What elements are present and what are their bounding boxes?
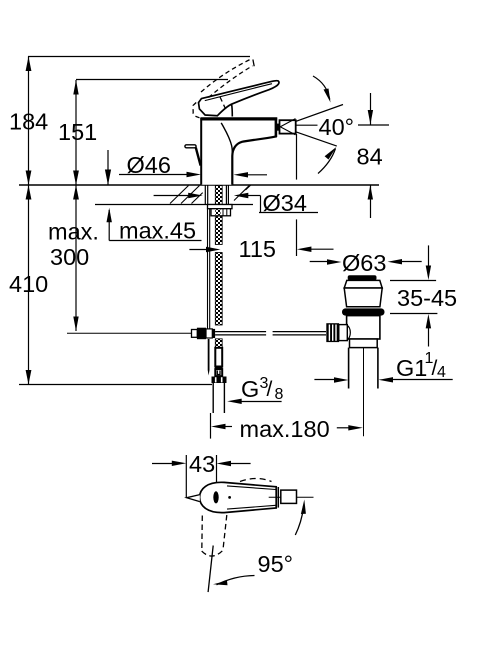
dashed raised handle nose xyxy=(193,103,200,118)
horizontal rod to drain segment 1 xyxy=(215,332,326,335)
arrow max300 bottom xyxy=(73,317,78,332)
arrow Ø34 left xyxy=(188,193,203,198)
svg-text:35-45: 35-45 xyxy=(397,285,457,311)
arrow max45 (up) xyxy=(107,208,112,223)
DIMENSION LINES xyxy=(19,57,453,593)
arrow Ø46 left (right-pointing) xyxy=(187,172,202,177)
left port curve xyxy=(347,325,351,340)
arrow G1 1/4 leader (left-pointing) xyxy=(379,377,394,382)
svg-text:95°: 95° xyxy=(258,551,294,577)
arrow 43 right (left-pointing) xyxy=(217,461,232,466)
DRAIN (pop-up waste assembly) xyxy=(326,275,384,388)
svg-text:/: / xyxy=(267,378,273,401)
pop-up knob rod xyxy=(196,148,201,166)
40 deg bisector xyxy=(296,124,318,126)
arrow 410 bottom xyxy=(26,370,32,385)
flange body xyxy=(344,288,382,307)
svg-text:300: 300 xyxy=(50,244,89,270)
dim 84 upper ref xyxy=(358,124,389,126)
dim 115 left shaft xyxy=(189,249,206,251)
arrow 95deg arc top end xyxy=(301,500,306,515)
svg-text:Ø34: Ø34 xyxy=(263,190,307,216)
body crease xyxy=(221,123,232,153)
arrow 35-45 lower (up) xyxy=(426,314,431,329)
drain center ext line xyxy=(363,339,365,436)
dim 410 vertical xyxy=(28,185,30,385)
flex hose braid lower xyxy=(215,339,222,348)
svg-text:max.: max. xyxy=(48,219,99,245)
arrow 95deg arc bottom end xyxy=(213,581,228,586)
svg-text:410: 410 xyxy=(9,271,48,297)
top view body outline xyxy=(200,482,277,512)
dim Ø34 arrows shafts xyxy=(154,195,189,197)
svg-text:max.45: max.45 xyxy=(119,218,196,244)
svg-text:8: 8 xyxy=(275,386,284,403)
40 deg arc upper xyxy=(313,76,330,100)
dim max180 right shaft xyxy=(337,427,349,429)
dim 35-45 vertical lower xyxy=(428,328,430,347)
arrow 84 bottom (up) xyxy=(368,185,373,200)
aerator collar nub xyxy=(277,124,280,131)
arrow Ø63 left (right-pointing) xyxy=(327,259,342,264)
dim 184 vertical xyxy=(28,57,30,186)
arrow 40deg arc lower end xyxy=(325,147,337,160)
arrow 184 top xyxy=(26,57,32,72)
top view dashed handle arc xyxy=(240,479,272,482)
top view small dot xyxy=(228,496,231,499)
arrow 40deg arc upper end xyxy=(324,89,331,103)
stopper cap xyxy=(348,275,377,280)
deck pointer line at x108 xyxy=(107,150,109,185)
arrow G1 1/4 pipe left (right-pointing) xyxy=(334,377,349,382)
flex hose braid middle xyxy=(215,253,222,326)
mounting nut xyxy=(211,209,231,216)
dim Ø63 right shaft xyxy=(402,261,422,263)
knurled nut xyxy=(326,323,339,342)
arrow 151 bottom xyxy=(73,171,79,186)
arrow max300 top xyxy=(73,185,79,200)
dim max45 arrow shaft xyxy=(108,210,110,241)
seal ring xyxy=(342,308,385,315)
95 deg arc upper xyxy=(295,505,303,535)
arrow 115 left (right-pointing) xyxy=(206,247,221,252)
G3/8 nut xyxy=(212,377,227,384)
spout end face xyxy=(275,118,278,138)
body fill xyxy=(201,119,277,185)
dim G3/8 underline xyxy=(240,401,282,403)
dashed cone bottom ellipse xyxy=(202,550,224,556)
dashed cone right edge xyxy=(223,515,227,551)
clevis collar xyxy=(192,330,198,338)
dashed cone left edge xyxy=(202,515,227,556)
dim 84 vertical lower xyxy=(370,185,372,218)
arrow Ø63 right (left-pointing) xyxy=(388,259,403,264)
dim Ø34 leader drop xyxy=(260,196,262,213)
top view cartridge hole xyxy=(213,491,218,503)
left port collar xyxy=(339,325,348,341)
dashed raised handle blade lower edge xyxy=(209,66,253,98)
dim 43 left ext xyxy=(185,455,187,497)
clevis white square xyxy=(206,329,212,338)
deck bottom line xyxy=(95,204,253,206)
body left edge xyxy=(200,118,202,185)
ref line top of handle (151) xyxy=(76,79,228,81)
dim max180 left ext xyxy=(210,413,212,439)
top view axis line xyxy=(269,496,314,498)
deck top line xyxy=(19,184,379,186)
svg-text:G1: G1 xyxy=(396,355,427,381)
fan line upper xyxy=(281,105,343,127)
arrow 410 top xyxy=(26,185,32,200)
handle neck right edge xyxy=(231,104,234,116)
95 deg arc lower xyxy=(217,576,255,585)
svg-text:40°: 40° xyxy=(319,114,355,140)
svg-text:Ø46: Ø46 xyxy=(127,152,171,178)
svg-text:Ø63: Ø63 xyxy=(342,250,386,276)
top view spout nib xyxy=(187,495,200,502)
arrow 115 right (left-pointing) xyxy=(297,247,312,253)
clevis right dark piece xyxy=(212,329,215,338)
dashed raised handle blade upper edge xyxy=(193,59,254,118)
dim max300 vertical xyxy=(75,185,77,331)
aerator box xyxy=(280,120,296,133)
knurled nut ridges xyxy=(329,325,336,341)
dim 84 vertical upper xyxy=(370,93,372,125)
dim G1 1/4 left shaft xyxy=(314,379,335,381)
arrow 43 left (right-pointing) xyxy=(172,461,187,466)
arrow Ø34 right xyxy=(234,193,249,198)
dim 151 vertical xyxy=(75,80,77,185)
waste nut band xyxy=(350,339,378,348)
pop-up rod tip xyxy=(208,370,210,376)
dim 410 bottom ref line xyxy=(19,384,212,386)
pop-up knob xyxy=(185,145,196,148)
ext line under aerator xyxy=(296,134,298,180)
shank wall lines below base xyxy=(205,186,228,205)
arrow 35-45 upper (down) xyxy=(426,266,431,281)
dim G1 1/4 underline xyxy=(391,379,453,381)
supply tube below nut xyxy=(213,383,224,413)
top view right end second line xyxy=(277,487,279,508)
arrow deck pointer xyxy=(105,170,111,186)
fan line lower xyxy=(281,127,337,146)
aerator inner diagonals xyxy=(280,119,295,135)
40 deg arc lower xyxy=(318,149,336,174)
body top band xyxy=(200,117,277,120)
dim Ø46 line right xyxy=(247,174,267,176)
dim 43 right ext xyxy=(216,455,218,491)
arrow 184 bottom xyxy=(26,171,32,186)
dim 43 left shaft xyxy=(152,463,173,465)
svg-text:84: 84 xyxy=(357,143,383,169)
flex hose braid upper xyxy=(215,204,222,244)
arrow max180 right (right-pointing) xyxy=(348,425,363,430)
hose end fitting dark band xyxy=(215,367,223,370)
dim max45 underline xyxy=(109,240,201,242)
TOP VIEW xyxy=(187,479,314,557)
svg-text:4: 4 xyxy=(437,364,446,381)
dim max180 left shaft xyxy=(224,426,232,428)
horizontal rod left reference xyxy=(67,332,192,334)
svg-text:G: G xyxy=(241,376,259,402)
pop-up vertical rod xyxy=(207,209,209,329)
mounting washer xyxy=(208,205,233,209)
dim 35-45 lower ref xyxy=(390,313,437,315)
flange top flare xyxy=(344,280,382,288)
hose end fitting upper window xyxy=(215,348,222,367)
shank thread (checkered) xyxy=(215,186,222,205)
horizontal rod to drain segment 2 xyxy=(273,331,326,333)
95 deg leg line xyxy=(208,546,213,593)
FAUCET FRONT VIEW xyxy=(67,59,326,413)
svg-text:184: 184 xyxy=(9,109,48,135)
dim 115 right ext line xyxy=(296,219,298,256)
dashed raised handle tip xyxy=(253,60,254,67)
top view inner bottom line xyxy=(227,505,276,509)
ARROWHEADS xyxy=(26,57,432,586)
arrow Ø46 right (left-pointing) xyxy=(234,172,249,177)
clevis dark block xyxy=(197,328,206,340)
arrow max180 left (left-pointing) xyxy=(211,424,226,429)
dim Ø34 underline xyxy=(259,212,318,214)
deck hatching xyxy=(170,185,251,203)
handle inner top line xyxy=(205,84,272,101)
hose end fitting clip mark xyxy=(217,371,220,375)
handle (solid, rest position) xyxy=(199,81,279,116)
top view outlet square xyxy=(281,490,297,503)
ref line top of raised handle (184) xyxy=(28,56,250,58)
dim Ø46 line left xyxy=(119,174,188,176)
dim 43 right shaft xyxy=(230,463,251,465)
hose end fitting lower window xyxy=(215,369,222,376)
svg-text:151: 151 xyxy=(58,119,97,145)
arrow G3/8 (left-pointing) xyxy=(227,399,242,404)
arrow 84 top (down) xyxy=(368,110,373,125)
arrow 151 top xyxy=(73,80,78,95)
dashed raised handle neck xyxy=(220,97,226,110)
dim 35-45 vertical upper xyxy=(428,245,430,266)
svg-text:43: 43 xyxy=(189,451,215,477)
svg-text:115: 115 xyxy=(239,236,276,262)
dim Ø63 left shaft xyxy=(310,261,327,263)
top view inner top line xyxy=(227,486,276,490)
tailpipe xyxy=(349,348,378,389)
svg-text:max.180: max.180 xyxy=(240,416,330,442)
spout underside and body right edge xyxy=(232,136,276,185)
dim 115 right shaft xyxy=(311,248,334,250)
waste body xyxy=(347,316,380,339)
dim 35-45 upper ref xyxy=(390,280,436,282)
